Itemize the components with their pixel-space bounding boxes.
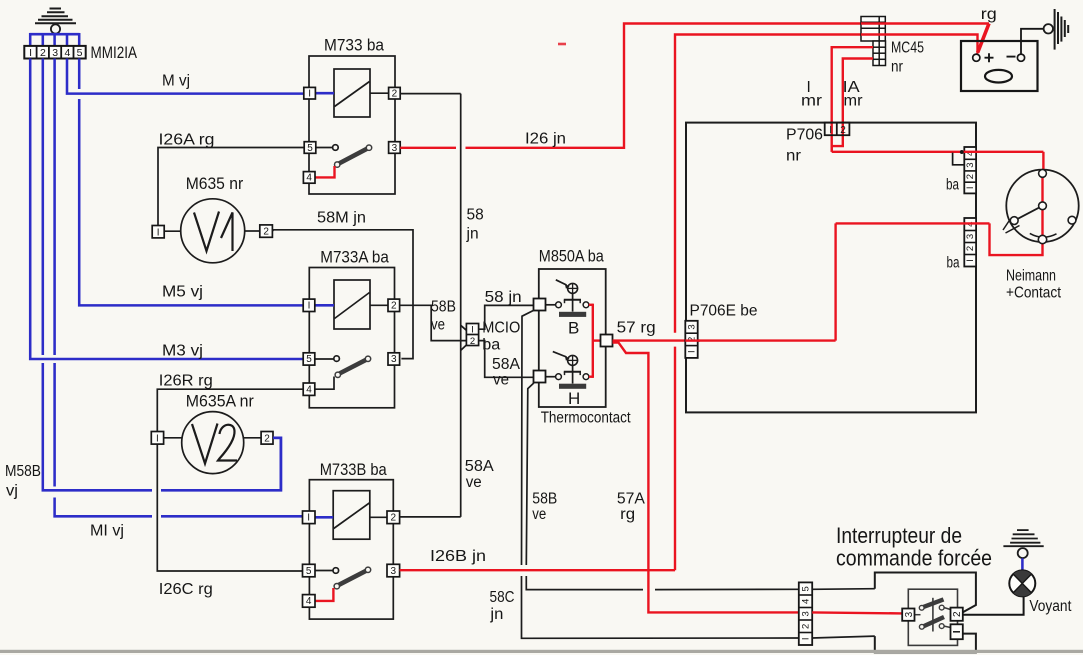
B/H input stubs	[546, 304, 556, 306]
svg-text:57 rg: 57 rg	[617, 320, 656, 337]
wire 126R rg	[157, 389, 303, 571]
wire 58B ve (H terminal down)	[526, 383, 799, 590]
svg-text:I: I	[965, 186, 976, 189]
svg-text:4: 4	[306, 173, 312, 184]
svg-text:3: 3	[392, 143, 398, 154]
M733B pin4 red link	[315, 588, 333, 601]
connector P706 1|2	[825, 123, 850, 136]
connector MM121A	[24, 44, 137, 62]
motor M635 V1	[164, 199, 260, 263]
interrupteur enclosure	[875, 573, 976, 653]
wire red vertical from MC45 to 126B	[675, 35, 861, 571]
wire pin2 (to M58B)	[43, 59, 281, 491]
svg-text:nr: nr	[786, 148, 802, 165]
svg-text:I26R rg: I26R rg	[159, 373, 213, 390]
svg-text:I: I	[687, 350, 698, 353]
wire 58 jn (MC10 to B terminal)	[479, 305, 534, 329]
svg-text:I: I	[965, 259, 976, 262]
M733A coil stubs	[315, 304, 334, 307]
red pass through upper ba cell4	[963, 151, 978, 153]
svg-text:2: 2	[470, 336, 475, 347]
M733B coil stubs	[315, 516, 333, 519]
svg-text:I26C rg: I26C rg	[159, 581, 213, 598]
svg-text:P706: P706	[786, 127, 823, 144]
svg-text:rg: rg	[981, 6, 997, 23]
relay M733A blade	[335, 356, 371, 377]
connector P706E	[685, 321, 697, 358]
svg-text:2: 2	[391, 301, 397, 312]
ground G1 top-left	[35, 9, 76, 34]
svg-text:ba: ba	[946, 177, 959, 194]
wire 57 via lower ba cell4 to Neimann bottom	[836, 223, 1043, 340]
bottom scan line	[0, 650, 1083, 653]
wire pin5 M5 vj	[79, 59, 303, 306]
svg-text:M850A ba: M850A ba	[539, 248, 605, 266]
svg-text:5: 5	[77, 47, 83, 59]
M733B pin boxes	[303, 511, 400, 607]
svg-text:nr: nr	[891, 59, 904, 76]
red collector to 57	[589, 304, 601, 378]
wire voyant to ground (blue)	[1021, 558, 1024, 570]
svg-text:I: I	[801, 637, 812, 640]
M733 pin boxes	[303, 87, 400, 183]
svg-text:4: 4	[64, 47, 70, 59]
svg-text:4: 4	[801, 599, 812, 604]
svg-text:2: 2	[801, 624, 812, 629]
wire 126A rg	[158, 148, 304, 226]
connector ba lower (1234)	[964, 218, 976, 267]
svg-text:4: 4	[306, 385, 312, 396]
wire terminal2 to voyant	[963, 596, 1024, 614]
svg-text:58B: 58B	[431, 299, 456, 316]
svg-text:commande forcée: commande forcée	[836, 546, 992, 571]
svg-text:M vj: M vj	[162, 73, 190, 90]
svg-text:jn: jn	[466, 226, 479, 243]
connector 5pin interrupteur	[799, 582, 812, 645]
Neimann ignition switch	[1003, 170, 1079, 244]
svg-text:5: 5	[307, 143, 313, 154]
wire 58B ve (M733A pin2 to MC10)	[400, 305, 467, 340]
svg-text:5: 5	[306, 566, 312, 577]
svg-text:4: 4	[306, 596, 312, 607]
svg-text:I: I	[471, 325, 474, 336]
svg-text:M3 vj: M3 vj	[162, 343, 203, 360]
svg-text:5: 5	[801, 586, 812, 591]
svg-text:I: I	[29, 47, 32, 59]
relay M733	[309, 56, 395, 194]
wire pin3 (to MI vj)	[55, 59, 303, 517]
M733 coil stubs	[315, 92, 334, 95]
svg-text:I: I	[308, 301, 311, 312]
svg-text:2: 2	[952, 611, 963, 617]
svg-text:I: I	[156, 434, 159, 445]
ground bus wire (blue)	[30, 33, 80, 46]
svg-text:ve: ve	[493, 372, 509, 389]
jumper cell4-cell3 (upper ba)	[953, 153, 965, 165]
relay M733B blade	[334, 567, 371, 589]
svg-text:+Contact: +Contact	[1006, 285, 1061, 302]
connector MC45	[861, 17, 886, 66]
svg-text:2: 2	[392, 89, 398, 100]
svg-text:Thermocontact: Thermocontact	[541, 410, 632, 427]
wire 58A (to M733B pin2)	[400, 516, 461, 518]
thermal switch H	[553, 352, 589, 389]
svg-text:2: 2	[40, 47, 46, 59]
svg-text:58B: 58B	[532, 491, 557, 508]
wire rg to battery plus	[861, 24, 989, 54]
wire through connector (58C bottom)	[812, 636, 875, 638]
svg-text:3: 3	[965, 234, 976, 239]
svg-text:58A: 58A	[465, 458, 495, 475]
svg-text:jn: jn	[489, 606, 503, 623]
svg-text:58: 58	[467, 207, 484, 224]
svg-text:3: 3	[904, 611, 915, 617]
box P706	[686, 123, 976, 413]
connector MC10	[466, 324, 478, 347]
svg-text:3: 3	[391, 354, 397, 365]
svg-text:M635 nr: M635 nr	[186, 175, 244, 193]
svg-text:M635A nr: M635A nr	[186, 393, 254, 411]
wire 1A mr	[832, 59, 873, 147]
svg-text:58A: 58A	[492, 356, 521, 373]
M733 pin4 red link	[315, 166, 335, 177]
svg-text:2: 2	[391, 513, 397, 524]
svg-text:M733 ba: M733 ba	[324, 37, 385, 55]
svg-text:3: 3	[687, 324, 698, 329]
switch terminal 2	[951, 608, 963, 621]
svg-text:I: I	[157, 227, 160, 238]
wire I mr	[832, 47, 873, 152]
svg-text:I26 jn: I26 jn	[525, 131, 566, 148]
battery	[961, 41, 1038, 91]
svg-text:Voyant: Voyant	[1029, 598, 1072, 615]
svg-text:MC45: MC45	[891, 40, 924, 57]
svg-text:M58B: M58B	[5, 463, 41, 480]
svg-text:Interrupteur de: Interrupteur de	[836, 523, 962, 548]
switch lower terminal box	[951, 624, 963, 639]
svg-text:M733B ba: M733B ba	[320, 461, 388, 479]
svg-text:2: 2	[264, 434, 270, 445]
lamp Voyant	[1009, 570, 1035, 596]
svg-text:I: I	[308, 89, 311, 100]
svg-text:ve: ve	[466, 474, 482, 491]
relay M733A	[309, 268, 394, 408]
thermal switch B	[556, 280, 589, 317]
svg-text:MI vj: MI vj	[90, 523, 124, 540]
box M850A	[539, 269, 606, 407]
svg-text:M733A ba: M733A ba	[320, 249, 389, 267]
relay M733 blade	[335, 145, 372, 167]
svg-text:vj: vj	[6, 483, 18, 500]
svg-text:mr: mr	[801, 93, 822, 110]
svg-text:MMI2IA: MMI2IA	[91, 44, 138, 62]
wire battery minus to ground	[1021, 29, 1044, 54]
svg-text:mr: mr	[844, 93, 863, 110]
svg-text:58C: 58C	[490, 589, 515, 606]
wire 58 (M733 pin2 down to MC10)	[400, 94, 466, 517]
svg-text:ve: ve	[431, 317, 445, 334]
svg-text:I26B jn: I26B jn	[430, 548, 486, 565]
svg-text:3: 3	[965, 162, 976, 167]
wire through connector (58B top)	[812, 588, 875, 591]
relay M733B	[309, 480, 393, 619]
wire 58M jn	[272, 230, 413, 359]
red through P706E cell2 (redraw over connector)	[685, 339, 700, 341]
wire 57 rg (to P706E)	[613, 339, 836, 341]
terminal squares M850A	[534, 299, 613, 383]
svg-text:58M jn: 58M jn	[317, 210, 366, 227]
svg-text:2: 2	[840, 125, 846, 136]
svg-text:H: H	[568, 389, 580, 408]
svg-text:I: I	[307, 513, 310, 524]
svg-text:57A: 57A	[617, 491, 646, 508]
svg-text:M5 vj: M5 vj	[162, 284, 203, 301]
svg-text:B: B	[568, 319, 579, 338]
wire 58A ve (MC10 to H terminal)	[479, 341, 534, 378]
wire pin1 (to M3 vj)	[30, 59, 303, 360]
svg-text:I: I	[829, 125, 832, 136]
svg-text:ve: ve	[532, 506, 546, 523]
switch interrupteur inner box	[908, 589, 957, 645]
artifact red dash	[558, 43, 566, 46]
connector ba upper (1234)	[964, 147, 976, 193]
svg-text:MCIO: MCIO	[482, 320, 520, 337]
wire pin4 M vj	[67, 59, 304, 94]
svg-text:2: 2	[263, 227, 269, 238]
ground G3 (voyant)	[1003, 530, 1043, 558]
ground G2 top-right	[1044, 9, 1069, 50]
svg-text:2: 2	[965, 246, 976, 251]
svg-text:rg: rg	[620, 506, 635, 523]
svg-text:3: 3	[52, 47, 58, 59]
svg-text:ba: ba	[947, 255, 960, 272]
M733A pin boxes	[303, 299, 399, 395]
wire 57A rg (down)	[613, 343, 799, 613]
M733A pin4 link	[315, 377, 334, 390]
svg-text:P706E be: P706E be	[690, 303, 758, 320]
svg-text:2: 2	[965, 174, 976, 179]
wire 126B jn (red)	[400, 569, 675, 571]
switch terminal 3	[902, 609, 914, 621]
wire 58C jn (B terminal down to interrupteur)	[522, 310, 799, 638]
svg-text:5: 5	[306, 354, 312, 365]
motor M635A V2	[164, 412, 262, 474]
switch blades	[915, 598, 951, 632]
svg-text:Neimann: Neimann	[1006, 268, 1056, 285]
wire 126 jn (red, M733 pin3 to MC45)	[400, 24, 861, 148]
svg-text:58 jn: 58 jn	[485, 289, 522, 306]
svg-text:3: 3	[801, 611, 812, 616]
svg-text:I26A rg: I26A rg	[159, 132, 215, 149]
wire 57A red into switch pin3	[812, 612, 902, 613]
svg-text:3: 3	[391, 566, 397, 577]
wire to Neimann contact feed	[832, 146, 1044, 171]
wire M58B (M635A pin2 blue path)	[273, 438, 281, 491]
